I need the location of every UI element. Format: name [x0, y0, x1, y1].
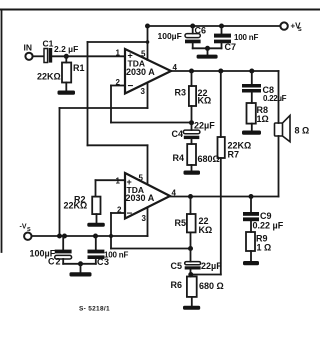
- svg-text:C6: C6: [195, 26, 207, 36]
- wire joining C6 C7 bottoms: [193, 47, 222, 49]
- node C2 on rail: [62, 234, 67, 239]
- svg-text:4: 4: [172, 189, 177, 198]
- wire input to C1: [33, 55, 44, 57]
- svg-text:C2: C2: [48, 256, 62, 266]
- node C2C3 ground junction: [78, 261, 83, 266]
- wire U1 pin3 horizontal y108: [60, 107, 148, 109]
- svg-text:3: 3: [141, 87, 146, 96]
- svg-text:2: 2: [116, 78, 121, 87]
- wire U2 pin2 vertical: [110, 213, 112, 249]
- svg-text:C4: C4: [172, 129, 184, 139]
- node R5/C5 junction: [188, 246, 193, 251]
- node C8 tap: [249, 69, 254, 74]
- capacitor C5: [185, 249, 201, 277]
- svg-text:680 Ω: 680 Ω: [199, 281, 224, 291]
- svg-text:4: 4: [173, 63, 178, 72]
- wire U2 pin5 drop: [147, 145, 149, 183]
- wire U2 pin2 to R5/C5 junction: [111, 248, 191, 250]
- +Vs terminal: [280, 22, 287, 29]
- ground under C6 C7: [197, 48, 218, 58]
- wire +Vs branch to U2 pin5: horizontal y42: [88, 41, 148, 43]
- svg-text:R1: R1: [73, 63, 85, 73]
- svg-text:C1: C1: [43, 39, 54, 49]
- wire U1 pin5 to +Vs rail: [147, 26, 149, 60]
- svg-text:R5: R5: [175, 218, 187, 228]
- svg-text:100 nF: 100 nF: [234, 33, 258, 42]
- wire U1 pin2 vertical: [110, 86, 112, 123]
- svg-text:2: 2: [117, 206, 122, 215]
- capacitor C1: [44, 48, 52, 63]
- -Vs rail: [32, 235, 148, 237]
- wire joining C2 C3 bottoms: [63, 263, 96, 265]
- svg-text:1 Ω: 1 Ω: [257, 243, 272, 253]
- input terminal IN: [25, 53, 32, 60]
- ground under R4: [184, 171, 201, 175]
- svg-text:−: −: [127, 209, 133, 220]
- svg-text:5: 5: [139, 174, 144, 183]
- node A junction: [64, 54, 69, 59]
- svg-text:R7: R7: [228, 150, 240, 160]
- wire speaker bottom to U2 output: [278, 136, 280, 197]
- resistor R8: [247, 103, 256, 131]
- svg-text:KΩ: KΩ: [198, 96, 212, 106]
- svg-text:IN: IN: [24, 43, 33, 53]
- svg-text:0.22µF: 0.22µF: [263, 94, 287, 103]
- node pin3 drop on rail: [57, 234, 62, 239]
- resistor R9: [246, 232, 255, 262]
- svg-text:100µF: 100µF: [158, 31, 182, 41]
- svg-text:1: 1: [116, 177, 121, 186]
- wire U2 pin3 vertical: [147, 208, 149, 237]
- svg-text:2030 A: 2030 A: [126, 193, 155, 203]
- svg-text:680Ω: 680Ω: [198, 154, 220, 164]
- svg-text:2030 A: 2030 A: [126, 67, 155, 77]
- node tee at y42: [146, 40, 150, 44]
- wire U1 pin2 to feedback node y122.5: [111, 122, 192, 124]
- svg-text:KΩ: KΩ: [199, 225, 213, 235]
- ground under R9: [243, 261, 259, 265]
- svg-text:−: −: [128, 81, 134, 92]
- node C5/R6/R7 junction: [188, 272, 193, 277]
- svg-text:22KΩ: 22KΩ: [64, 201, 88, 211]
- capacitor C3: [88, 236, 105, 264]
- svg-text:2.2 µF: 2.2 µF: [54, 44, 78, 54]
- node R5 tap: [188, 194, 193, 199]
- capacitor C7: [214, 26, 231, 48]
- left frame line: [1, 10, 3, 253]
- svg-text:-V: -V: [20, 224, 27, 231]
- wire U1 pin3 vertical: [147, 83, 149, 108]
- svg-text:C5: C5: [171, 261, 183, 271]
- svg-text:C3: C3: [97, 257, 110, 267]
- wire R7 bottom to C5/R6 junction: [191, 274, 221, 276]
- resistor R2: [92, 197, 100, 223]
- wire horizontal y145 to U2 pin5: [88, 144, 148, 146]
- svg-text:3: 3: [142, 214, 147, 223]
- ground under R8: [242, 131, 261, 135]
- capacitor C4: [183, 130, 200, 144]
- svg-text:C7: C7: [225, 42, 237, 52]
- node R7 tap: [218, 69, 223, 74]
- wire U1 output line y71: [171, 70, 279, 72]
- resistor R4: [187, 144, 196, 171]
- wire U2 output line y196.5: [170, 196, 279, 198]
- resistor R5: [187, 197, 196, 249]
- op-amp U1 TDA2030A triangle: [125, 49, 171, 94]
- wire to speaker top: [278, 71, 280, 123]
- -Vs terminal: [24, 233, 31, 240]
- node C6C7 ground junction: [205, 46, 210, 51]
- ground under R2: [87, 223, 105, 227]
- node C3 on rail: [93, 234, 98, 239]
- resistor R3: [189, 71, 196, 130]
- wire vertical x87.5 down: [87, 42, 89, 145]
- capacitor C6: [185, 26, 201, 48]
- svg-text:22µF: 22µF: [201, 261, 222, 271]
- capacitor C8: [242, 71, 261, 103]
- wire U2 pin2 stub: [111, 212, 125, 214]
- node feedback junction R3/C4: [189, 120, 194, 125]
- top frame line: [0, 9, 320, 11]
- svg-text:R3: R3: [175, 88, 187, 98]
- svg-text:1Ω: 1Ω: [257, 114, 269, 124]
- wire node A to op-amp pin1: [52, 55, 125, 57]
- svg-text:R6: R6: [171, 280, 183, 290]
- node C6 on rail: [190, 24, 195, 29]
- svg-text:5: 5: [141, 50, 146, 59]
- resistor R1: [62, 56, 71, 91]
- op-amp U2 TDA2030A triangle: [125, 173, 170, 219]
- resistor R7: [218, 71, 225, 275]
- svg-text:S: S: [27, 227, 31, 233]
- resistor R6: [187, 277, 197, 307]
- node crossing blob: [109, 234, 113, 238]
- svg-text:22KΩ: 22KΩ: [37, 72, 61, 82]
- node C7 on rail: [219, 24, 224, 29]
- svg-text:22µF: 22µF: [194, 121, 215, 131]
- svg-text:8 Ω: 8 Ω: [295, 126, 310, 136]
- svg-text:0.22 µF: 0.22 µF: [253, 221, 284, 231]
- wire x59.5 down to -Vs rail: [59, 108, 61, 236]
- wire U1 pin2 stub: [111, 85, 125, 87]
- ground under C2 C3: [70, 264, 92, 277]
- svg-text:R4: R4: [173, 153, 185, 163]
- svg-text:C9: C9: [260, 211, 272, 221]
- wire U2 pin1 down to R2: [95, 180, 97, 196]
- node R3 tap: [189, 69, 194, 74]
- svg-text:1: 1: [116, 49, 121, 58]
- +Vs rail: [148, 25, 281, 27]
- ground under R6: [183, 306, 200, 310]
- speaker LS: [275, 115, 291, 141]
- wire U2 pin1 stub: [96, 179, 126, 181]
- capacitor C9: [243, 197, 259, 233]
- svg-text:S- 5218/1: S- 5218/1: [79, 306, 110, 313]
- capacitor C2: [55, 236, 72, 264]
- ground under R1: [58, 91, 76, 95]
- node C9 tap: [249, 194, 254, 199]
- node U1 pin5 on +Vs rail: [145, 24, 150, 29]
- svg-text:S: S: [298, 27, 302, 33]
